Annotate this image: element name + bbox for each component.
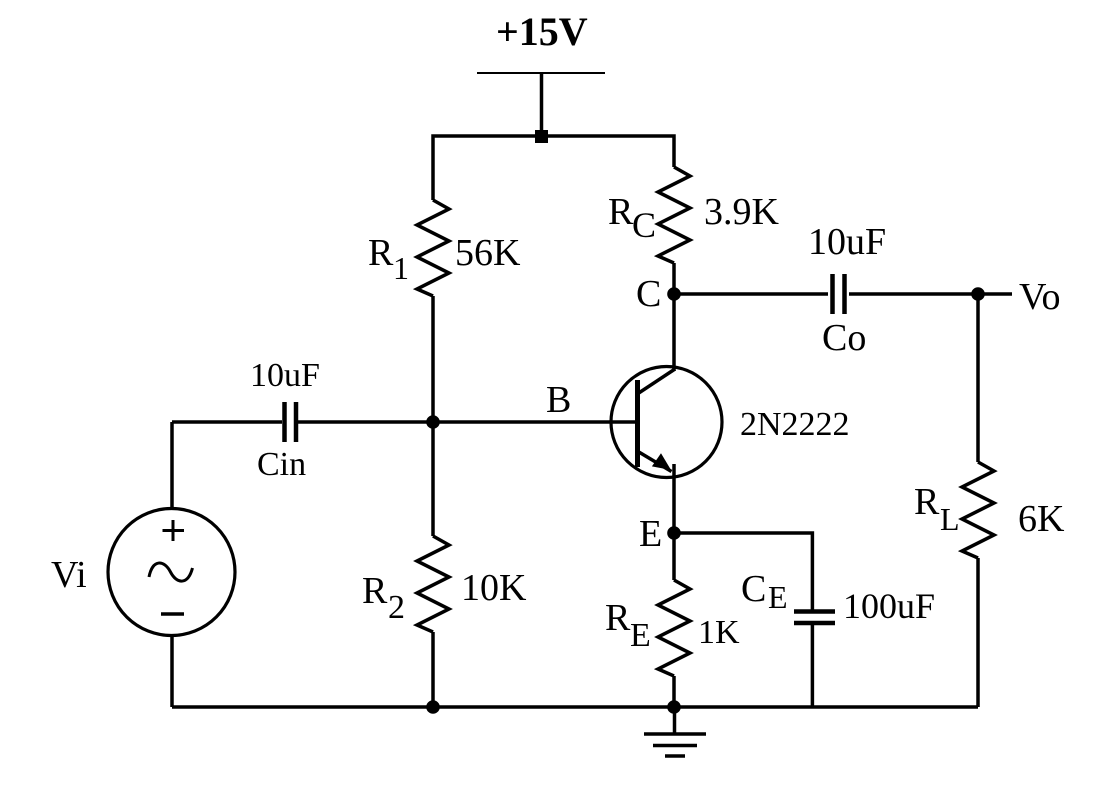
- collector diagonal: [638, 369, 675, 394]
- wire collector: [672, 294, 676, 371]
- svg-text:Co: Co: [822, 317, 866, 359]
- svg-text:C: C: [741, 568, 766, 610]
- svg-text:6K: 6K: [1018, 498, 1065, 540]
- svg-text:3.9K: 3.9K: [704, 191, 780, 233]
- node C: [667, 287, 681, 301]
- svg-text:E: E: [630, 617, 651, 654]
- wire base: [433, 420, 637, 424]
- svg-text:C: C: [632, 205, 656, 245]
- svg-text:R: R: [362, 570, 388, 612]
- svg-text:Cin: Cin: [257, 446, 306, 483]
- wire Vi top: [170, 422, 174, 510]
- wire CE bottom: [811, 625, 815, 707]
- wire Co to node Vo: [849, 292, 978, 296]
- node B: [426, 415, 440, 429]
- junction bottom emitter: [667, 700, 681, 714]
- resistor R2: [417, 536, 449, 632]
- wire RE bottom: [672, 676, 676, 707]
- svg-text:E: E: [639, 513, 662, 555]
- wire node C to Co: [674, 292, 828, 296]
- wire RL bottom: [976, 558, 980, 707]
- junction bottom left: [426, 700, 440, 714]
- svg-text:2N2222: 2N2222: [740, 406, 850, 443]
- wire Vo stub: [978, 292, 1012, 296]
- wire Vi bottom: [170, 634, 174, 707]
- resistor RC: [658, 167, 690, 263]
- wire bottom rail: [172, 705, 978, 709]
- svg-text:10K: 10K: [461, 567, 527, 609]
- plus sign: [163, 529, 185, 532]
- node Vo: [971, 287, 985, 301]
- capacitor Cin: [282, 402, 287, 442]
- wire E down to RE: [672, 533, 676, 580]
- junction power node: [535, 130, 548, 143]
- svg-text:10uF: 10uF: [250, 357, 320, 394]
- resistor RE: [658, 580, 690, 676]
- svg-text:E: E: [768, 579, 788, 615]
- wire top rail: [433, 136, 674, 200]
- wire power drop: [540, 73, 544, 136]
- wire R1 bottom to node B: [431, 296, 435, 422]
- svg-text:Vi: Vi: [51, 554, 87, 596]
- ground: [673, 707, 677, 734]
- svg-text:R: R: [914, 481, 940, 523]
- wire R2 bottom: [431, 632, 435, 707]
- resistor RL: [962, 462, 994, 558]
- node E: [667, 526, 681, 540]
- svg-text:R: R: [608, 191, 634, 233]
- wire Cin to node B: [298, 420, 433, 424]
- svg-text:56K: 56K: [455, 232, 521, 274]
- svg-text:R: R: [605, 597, 631, 639]
- wire E to CE branch: [674, 533, 812, 611]
- capacitor CE: [794, 609, 835, 614]
- svg-text:L: L: [940, 501, 960, 537]
- svg-text:+15V: +15V: [496, 9, 588, 54]
- svg-text:Vo: Vo: [1019, 276, 1061, 318]
- wire Vi to Cin: [172, 420, 282, 424]
- power rail bar: [477, 72, 605, 74]
- base bar: [635, 380, 640, 467]
- resistor R1: [417, 200, 449, 296]
- svg-text:1K: 1K: [698, 614, 740, 651]
- capacitor Co: [830, 274, 835, 314]
- svg-text:C: C: [636, 273, 661, 315]
- minus sign: [161, 612, 184, 616]
- svg-text:R: R: [368, 232, 394, 274]
- svg-text:1: 1: [393, 250, 409, 286]
- emitter arrow: [652, 453, 671, 470]
- svg-text:100uF: 100uF: [843, 586, 935, 626]
- svg-text:B: B: [546, 379, 571, 421]
- wire node B down to R2: [431, 422, 435, 536]
- svg-text:2: 2: [388, 589, 405, 626]
- sine symbol: [149, 563, 193, 581]
- wire Vo down to RL: [976, 294, 980, 462]
- transistor Q1 2N2222: [611, 367, 722, 478]
- emitter diagonal: [638, 452, 672, 472]
- svg-text:10uF: 10uF: [808, 221, 886, 263]
- wire emitter: [672, 464, 676, 533]
- source Vi: [108, 509, 235, 636]
- wire RC bottom to node C: [672, 263, 676, 294]
